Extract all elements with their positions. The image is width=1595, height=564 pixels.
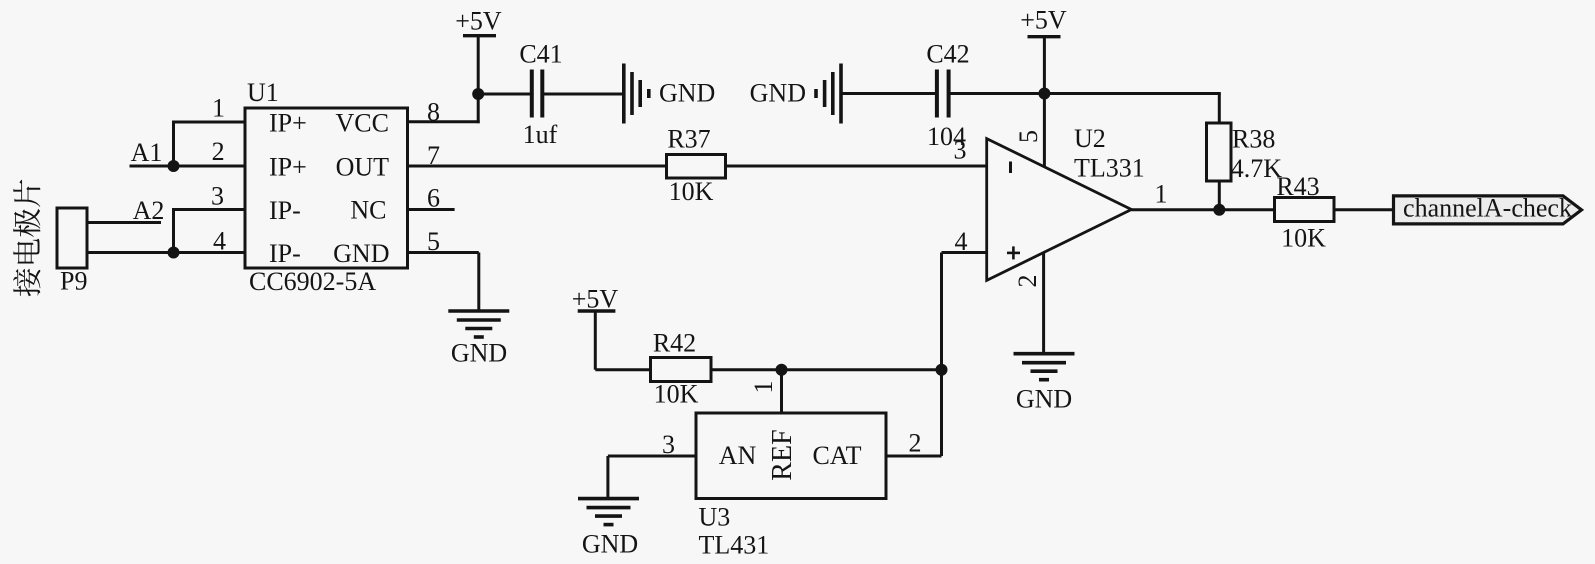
pin 3 U1 (211, 182, 224, 211)
svg-text:IP-: IP- (269, 196, 301, 225)
svg-text:P9: P9 (60, 267, 87, 296)
node +5V rail junction (1038, 88, 1050, 100)
label +5V top-middle (1020, 6, 1067, 35)
pin name IP+ 2 (269, 153, 307, 182)
svg-text:2: 2 (212, 137, 225, 166)
svg-text:IP+: IP+ (269, 109, 307, 138)
value 10K R37 (669, 177, 714, 206)
svg-text:GND: GND (750, 79, 806, 108)
wire pin5 to ground (406, 253, 479, 312)
svg-text:TL331: TL331 (1074, 153, 1145, 182)
svg-text:CC6902-5A: CC6902-5A (249, 267, 376, 296)
svg-text:channelA-check: channelA-check (1403, 193, 1572, 222)
pin 3 U2 (954, 136, 967, 165)
wire U3 CAT pin2 (886, 370, 942, 456)
resistor R42 (651, 358, 712, 382)
label U1 (247, 78, 279, 107)
svg-text:1: 1 (1155, 179, 1168, 208)
wire U2 output pin1 (1131, 208, 1274, 211)
label GND right of C41 (659, 79, 715, 108)
svg-text:U1: U1 (247, 78, 279, 107)
wire U3 REF pin1 (780, 370, 783, 413)
svg-text:IP+: IP+ (269, 153, 307, 182)
svg-text:4: 4 (213, 227, 226, 256)
label R38 (1232, 124, 1275, 153)
wire pin3 U1 (174, 208, 246, 253)
svg-text:1uf: 1uf (523, 120, 558, 149)
pin 5 U1 (427, 227, 440, 256)
pin name VCC (336, 109, 389, 138)
svg-text:AN: AN (719, 441, 757, 470)
label U2 (1074, 124, 1106, 153)
wire U2 pin4 input (942, 253, 987, 370)
wire pin1 U1 (174, 121, 246, 167)
wire ground to C42 (843, 92, 936, 95)
svg-text:8: 8 (427, 98, 440, 127)
wire pin2 U1 / node A1 (130, 160, 246, 172)
svg-text:CAT: CAT (812, 441, 861, 470)
svg-text:U2: U2 (1074, 124, 1106, 153)
wire R42 to U3 CAT net (711, 368, 942, 371)
pin name IP- 3 (269, 196, 301, 225)
svg-text:10K: 10K (654, 380, 699, 409)
svg-text:U3: U3 (699, 503, 731, 532)
svg-text:+5V: +5V (455, 6, 502, 35)
svg-text:6: 6 (427, 184, 440, 213)
svg-text:GND: GND (659, 79, 715, 108)
svg-text:TL431: TL431 (699, 530, 770, 559)
label C42 (926, 40, 969, 69)
svg-text:R43: R43 (1276, 172, 1319, 201)
svg-text:R38: R38 (1232, 124, 1275, 153)
resistor R37 (667, 155, 726, 179)
pin name CAT (812, 441, 861, 470)
net flag channelA-check (1394, 196, 1582, 224)
value TL431 (699, 530, 770, 559)
svg-text:REF: REF (767, 429, 798, 480)
wire pin7 OUT to R37 (406, 165, 667, 168)
node REF junction (776, 364, 788, 376)
wire pin6 NC stub (406, 208, 455, 211)
value 1uf (523, 120, 558, 149)
op-amp U2 TL331 (987, 139, 1132, 281)
wire U2 pin2 to ground (1042, 253, 1045, 354)
label U3 (699, 503, 731, 532)
svg-text:A1: A1 (131, 138, 163, 167)
pin name IP- 4 (269, 239, 301, 268)
svg-text:4.7K: 4.7K (1231, 154, 1283, 183)
svg-text:1: 1 (749, 381, 778, 394)
node A1 (131, 138, 163, 167)
label R42 (653, 329, 696, 358)
power +5V (bottom left) (578, 311, 616, 370)
ground (below U1 pin5) (448, 311, 509, 337)
value 4.7K (1231, 154, 1283, 183)
node CAT junction (936, 364, 948, 376)
label GND below U2 (1016, 385, 1072, 414)
wire +5V to pin8 corner (406, 94, 480, 123)
pin name AN (719, 441, 757, 470)
node A2 (133, 196, 165, 225)
ground (below U3 AN) (578, 499, 639, 525)
svg-text:GND: GND (582, 530, 638, 559)
value TL331 (1074, 153, 1145, 182)
pin 8 U1 (427, 98, 440, 127)
IC U1 body (245, 108, 408, 268)
pin 2 U1 (212, 137, 225, 166)
svg-text:3: 3 (211, 182, 224, 211)
svg-text:A2: A2 (133, 196, 165, 225)
label GND left of C42 (750, 79, 806, 108)
svg-text:2: 2 (1013, 275, 1042, 288)
capacitor C41 (532, 70, 543, 118)
label C41 (519, 40, 562, 69)
wire R37 to U2 pin3 (726, 165, 987, 168)
svg-text:C41: C41 (519, 40, 562, 69)
label +5V top-left (455, 6, 502, 35)
svg-text:3: 3 (662, 430, 675, 459)
wire A2 stub from P9 (87, 221, 161, 224)
svg-text:GND: GND (1016, 385, 1072, 414)
wire pin4 U1 from P9 (87, 247, 245, 259)
wire U2 pin5 (1043, 94, 1046, 167)
wire R38 to output node (1218, 181, 1221, 210)
capacitor C42 (937, 70, 949, 118)
label R43 (1276, 172, 1319, 201)
power +5V (top left) (463, 36, 496, 94)
svg-text:GND: GND (451, 339, 507, 368)
pin 1 U3 (749, 381, 778, 394)
svg-text:5: 5 (427, 227, 440, 256)
resistor R43 (1275, 198, 1335, 222)
pin name GND U1 (333, 239, 389, 268)
pin name NC (350, 196, 386, 225)
svg-text:4: 4 (955, 227, 968, 256)
svg-text:+5V: +5V (1020, 6, 1067, 35)
svg-text:NC: NC (350, 196, 386, 225)
wire +5V to R42 (595, 368, 650, 371)
resistor R38 (1207, 123, 1232, 181)
svg-text:R37: R37 (667, 125, 710, 154)
svg-text:5: 5 (1014, 130, 1043, 143)
label GND below U3 AN (582, 530, 638, 559)
svg-text:3: 3 (954, 136, 967, 165)
svg-text:1: 1 (212, 94, 225, 123)
svg-text:VCC: VCC (336, 109, 389, 138)
pin 4 U2 (955, 227, 968, 256)
node VCC junction (472, 88, 484, 100)
pin name REF (767, 429, 798, 480)
svg-text:10K: 10K (1281, 224, 1326, 253)
svg-text:OUT: OUT (336, 153, 390, 182)
node output junction (1213, 204, 1225, 216)
ground (right of C41) (624, 64, 649, 124)
pin 4 U1 (213, 227, 226, 256)
wire R43 to flag (1334, 208, 1394, 211)
power +5V (top middle) (1028, 37, 1061, 94)
value CC6902-5A (249, 267, 376, 296)
ground (left of C42) (816, 64, 841, 124)
svg-text:GND: GND (333, 239, 389, 268)
wire C41 to ground (544, 93, 624, 96)
IC U3 body (696, 413, 886, 499)
pin 2 U2 (1013, 275, 1042, 288)
pin 5 U2 (1014, 130, 1043, 143)
svg-text:2: 2 (909, 429, 922, 458)
value 104 (927, 122, 966, 151)
value 10K R43 (1281, 224, 1326, 253)
pin 3 U3 (662, 430, 675, 459)
svg-text:7: 7 (427, 141, 440, 170)
label GND below U1 (451, 339, 507, 368)
wire node to C41 (478, 93, 530, 96)
svg-text:R42: R42 (653, 329, 696, 358)
pin name IP+ 1 (269, 109, 307, 138)
connector P9 (57, 208, 87, 268)
svg-text:IP-: IP- (269, 239, 301, 268)
svg-text:10K: 10K (669, 177, 714, 206)
value 10K R42 (654, 380, 699, 409)
label jiedianjipian (connect electrode pad) vertical (13, 180, 40, 297)
ground (below U2 pin2) (1014, 354, 1075, 380)
net channelA-check text (1403, 193, 1572, 222)
svg-text:C42: C42 (926, 40, 969, 69)
pin 2 U3 (909, 429, 922, 458)
label P9 (60, 267, 87, 296)
label R37 (667, 125, 710, 154)
pin 1 U2 (1155, 179, 1168, 208)
wire C42 to +5V rail (950, 92, 1220, 95)
label +5V bottom (572, 285, 619, 314)
wire rail corner to R38 (1218, 94, 1221, 124)
pin 6 U1 (427, 184, 440, 213)
pin name OUT (336, 153, 390, 182)
pin 7 U1 (427, 141, 440, 170)
svg-text:+5V: +5V (572, 285, 619, 314)
wire U3 AN pin3 to ground (608, 456, 696, 499)
pin 1 U1 (212, 94, 225, 123)
